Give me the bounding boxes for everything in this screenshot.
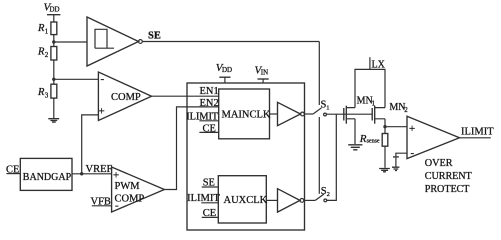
wire R3 to ground — [53, 98, 55, 118]
svg-text:R: R — [359, 133, 367, 145]
comparator PWM COMP — [112, 167, 165, 212]
ground (below R3) — [48, 119, 59, 122]
svg-text:BANDGAP: BANDGAP — [23, 172, 72, 183]
svg-text:sense: sense — [367, 139, 380, 145]
svg-text:MN: MN — [357, 96, 373, 107]
node sense (MN2 source) — [383, 125, 386, 128]
wire Rsense to ground — [384, 146, 386, 168]
svg-text:2: 2 — [327, 191, 330, 198]
svg-text:EN1: EN1 — [200, 86, 219, 97]
resistor R1 — [37, 22, 57, 36]
comparator COMP — [98, 72, 151, 121]
node between R1/R2 — [52, 40, 55, 43]
wire MN2 source to sense node — [384, 119, 386, 134]
outer block box — [187, 83, 305, 230]
svg-text:3: 3 — [45, 92, 49, 100]
transistor MN2 — [372, 102, 408, 124]
wire COMP plus input from VREF node — [82, 115, 99, 174]
svg-text:+: + — [99, 106, 105, 118]
wire MN1 source to ground — [354, 119, 356, 144]
transistor MN1 — [344, 96, 376, 124]
block AUXCLK — [218, 176, 267, 223]
output bubble of schmitt — [139, 40, 143, 44]
svg-text:DD: DD — [50, 6, 60, 14]
svg-text:R: R — [37, 87, 45, 98]
svg-text:COMP: COMP — [111, 92, 141, 103]
ground (MN1 source) — [348, 145, 362, 150]
switch S1 — [313, 100, 329, 116]
wire MAINCLK to buffer1 — [270, 113, 278, 115]
wire buffer2 to switch S2 — [304, 199, 316, 201]
wire S2 output riser to gate line — [327, 114, 337, 200]
svg-text:VREF: VREF — [86, 164, 113, 175]
svg-text:1: 1 — [326, 105, 329, 112]
node VREF — [80, 172, 83, 175]
svg-text:+: + — [113, 170, 119, 182]
svg-text:2: 2 — [404, 106, 408, 114]
svg-text:2: 2 — [45, 51, 49, 59]
svg-text:COMP: COMP — [115, 194, 145, 205]
reference source bar — [393, 156, 399, 158]
wire R1 to node1 — [53, 35, 55, 47]
svg-text:MAINCLK: MAINCLK — [222, 110, 271, 121]
svg-text:-: - — [411, 147, 415, 159]
power VDD (above clock box) — [216, 62, 232, 83]
power VDD (top-left) — [44, 2, 61, 23]
wire SE from schmitt to riser — [142, 41, 319, 43]
block MAINCLK — [219, 89, 271, 139]
svg-text:-: - — [101, 73, 105, 85]
bubble of buffer2 — [300, 199, 304, 203]
svg-text:SE: SE — [148, 31, 161, 42]
svg-text:OVER: OVER — [425, 158, 453, 169]
ground (reference) — [392, 167, 399, 170]
wire PWM comp output to EN2 — [164, 107, 218, 190]
svg-text:1: 1 — [45, 28, 49, 36]
svg-text:DD: DD — [222, 66, 232, 74]
resistor Rsense — [359, 133, 388, 146]
svg-text:R: R — [37, 47, 45, 58]
wire SE riser (vertical, with gap at S1) — [318, 42, 320, 194]
svg-text:ILIMIT: ILIMIT — [461, 127, 494, 138]
resistor R2 — [37, 47, 57, 61]
pin SE of AUXCLK — [202, 178, 219, 189]
net label CE (input to bandgap) — [6, 165, 20, 176]
wire node1 to schmitt input — [54, 41, 87, 43]
svg-text:AUXCLK: AUXCLK — [224, 195, 268, 206]
wire OCP output ILIMIT — [460, 137, 491, 139]
bubble of buffer1 — [301, 112, 305, 116]
buffer U2 (after MAINCLK) — [278, 102, 301, 125]
svg-text:-: - — [115, 200, 119, 212]
wire gate line S1 to MN1/MN2 gates — [326, 113, 372, 115]
svg-text:IN: IN — [261, 69, 268, 77]
net label VFB — [91, 197, 112, 208]
label OVER CURRENT PROTECT — [425, 158, 473, 195]
wire R2 to node2 — [53, 60, 55, 84]
wire VREF from bandgap to PWM comp — [72, 173, 112, 175]
schmitt trigger U1 — [87, 17, 139, 66]
svg-text:+: + — [409, 123, 415, 135]
svg-text:CURRENT: CURRENT — [425, 171, 473, 182]
svg-text:EN2: EN2 — [200, 98, 219, 109]
wire COMP output to EN1 — [152, 95, 219, 97]
buffer U3 (after AUXCLK) — [278, 189, 301, 212]
wire LX rail to drains — [355, 69, 385, 107]
power VIN (above clock box) — [255, 65, 269, 84]
comparator OVER CURRENT PROTECT — [407, 116, 460, 159]
svg-text:PWM: PWM — [115, 181, 141, 192]
wire AUXCLK to buffer2 — [266, 199, 277, 201]
pin CE of AUXCLK — [202, 208, 219, 219]
wire OCP minus input to reference — [396, 153, 407, 156]
pin ILIMIT of MAINCLK — [186, 112, 218, 123]
net LX — [370, 57, 386, 70]
svg-text:MN: MN — [389, 102, 405, 113]
wire node2 to COMP minus input — [54, 78, 99, 80]
svg-text:R: R — [37, 23, 45, 34]
svg-text:PROTECT: PROTECT — [425, 184, 470, 195]
wire reference to ground — [395, 158, 397, 167]
pin ILIMIT of AUXCLK — [187, 193, 220, 204]
wire buffer1 to switch S1 — [304, 113, 313, 115]
resistor R3 — [37, 84, 57, 99]
switch S2 — [315, 186, 330, 202]
node between R2/R3 — [52, 78, 55, 81]
ground (below Rsense) — [379, 169, 390, 172]
pin CE of MAINCLK — [199, 124, 218, 135]
wire sense node to OCP plus input — [387, 126, 407, 128]
block BANDGAP — [20, 158, 72, 190]
